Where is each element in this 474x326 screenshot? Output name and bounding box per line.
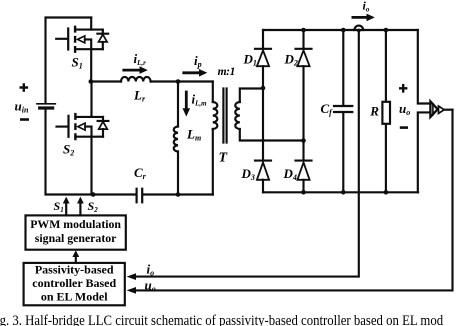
svg-text:io: io <box>363 0 370 14</box>
svg-text:S1: S1 <box>72 55 83 71</box>
svg-text:Lr: Lr <box>133 88 146 104</box>
svg-text:D2: D2 <box>284 52 298 68</box>
svg-text:S2: S2 <box>63 142 74 158</box>
svg-text:T: T <box>219 151 229 166</box>
svg-text:iL,r: iL,r <box>134 51 147 67</box>
svg-text:R: R <box>369 104 379 119</box>
svg-text:ip: ip <box>194 53 202 69</box>
svg-text:io: io <box>147 262 155 278</box>
svg-text:D1: D1 <box>243 52 257 68</box>
svg-text:m:1: m:1 <box>218 66 235 78</box>
svg-text:S1: S1 <box>54 199 64 214</box>
svg-text:D3: D3 <box>241 166 255 182</box>
svg-text:signal generator: signal generator <box>35 231 117 245</box>
svg-text:iL,m: iL,m <box>192 92 208 108</box>
svg-text:on EL Model: on EL Model <box>41 289 108 303</box>
svg-text:Cr: Cr <box>134 165 147 181</box>
svg-text:uo: uo <box>399 101 410 117</box>
svg-text:Fig. 3. Half-bridge LLC circui: Fig. 3. Half-bridge LLC circuit schemati… <box>0 313 443 326</box>
svg-text:S2: S2 <box>88 199 99 214</box>
svg-text:PWM modulation: PWM modulation <box>30 217 121 231</box>
svg-text:uin: uin <box>15 99 29 115</box>
svg-text:D4: D4 <box>283 166 297 182</box>
svg-text:Passivity-based: Passivity-based <box>35 262 114 276</box>
svg-text:uo: uo <box>145 278 156 294</box>
svg-text:Cf: Cf <box>321 101 334 117</box>
svg-text:controller Based: controller Based <box>32 276 116 290</box>
svg-text:Lm: Lm <box>186 127 201 143</box>
